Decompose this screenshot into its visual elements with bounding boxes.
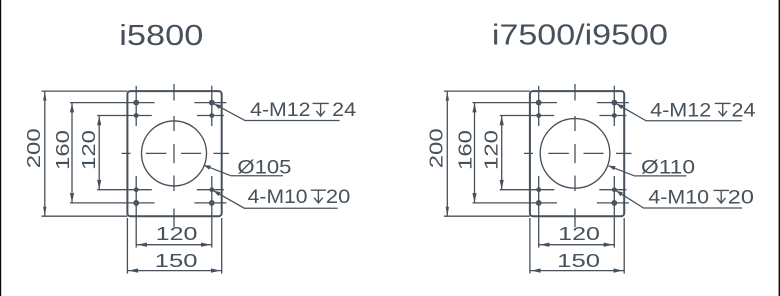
svg-text:i5800: i5800 <box>119 20 203 52</box>
hole M12 top-left (i5800) <box>134 101 138 105</box>
svg-text:20: 20 <box>728 187 754 208</box>
plate outline (i5800) <box>127 91 221 216</box>
dimension 120 bottom (i7500/i9500) <box>539 244 615 246</box>
dimension 200 (i7500/i9500) <box>444 90 530 92</box>
hole M10 bottom-right (i5800) <box>210 188 213 191</box>
svg-text:120: 120 <box>558 224 600 244</box>
svg-text:4-M10: 4-M10 <box>248 187 308 208</box>
label 4-M10 depth 20 (i5800) <box>214 191 338 208</box>
hole M12 bottom-right (i5800) <box>210 201 214 205</box>
hole centermark horizontals (i5800) <box>70 102 155 104</box>
svg-text:160: 160 <box>455 130 475 170</box>
vertical centerline (i5800) <box>173 84 175 101</box>
page right border <box>779 0 780 296</box>
label 4-M10 depth 20 (i7500/i9500) <box>616 191 742 208</box>
label diameter 110 (i7500/i9500) <box>609 166 687 176</box>
hole M10 bottom-left (i5800) <box>135 188 138 191</box>
hole M12 top-right (i7500/i9500) <box>612 101 616 105</box>
hole M12 top-left (i7500/i9500) <box>537 101 541 105</box>
hole centermark horizontals (i7500/i9500) <box>473 102 558 104</box>
central bore circle 110 (i7500/i9500) <box>540 119 610 189</box>
svg-text:120: 120 <box>156 224 198 244</box>
hole M10 top-right (i5800) <box>210 114 213 117</box>
label 4-M12 depth 24 (i7500/i9500) <box>617 104 742 121</box>
label diameter 105 (i5800) <box>204 165 283 176</box>
svg-text:Ø110: Ø110 <box>641 157 695 178</box>
plate outline (i7500/i9500) <box>530 91 624 216</box>
dimension 120 left (i7500/i9500) <box>501 116 503 190</box>
hole centermark verticals (i7500/i9500) <box>538 86 540 126</box>
svg-text:20: 20 <box>326 187 350 208</box>
svg-text:120: 120 <box>79 130 99 170</box>
svg-text:200: 200 <box>24 128 44 168</box>
svg-text:160: 160 <box>53 130 73 170</box>
hole M12 top-right (i5800) <box>210 101 214 105</box>
svg-text:4-M10: 4-M10 <box>648 187 709 208</box>
dimension 200 (i5800) <box>41 90 127 92</box>
page left border <box>0 0 1 296</box>
svg-text:150: 150 <box>155 251 198 271</box>
svg-text:200: 200 <box>426 128 446 168</box>
dimension 120 bottom (i5800) <box>136 244 212 246</box>
svg-text:24: 24 <box>332 100 356 121</box>
svg-text:4-M12: 4-M12 <box>250 100 310 121</box>
svg-text:120: 120 <box>482 130 502 170</box>
svg-text:Ø105: Ø105 <box>237 158 291 179</box>
svg-text:4-M12: 4-M12 <box>650 100 711 121</box>
hole M10 top-left (i7500/i9500) <box>537 114 540 117</box>
hole centermark verticals (i5800) <box>135 86 137 126</box>
hole M10 bottom-left (i7500/i9500) <box>537 188 540 191</box>
central bore circle 105 (i5800) <box>142 121 207 186</box>
dimension 160 (i7500/i9500) <box>474 103 476 203</box>
svg-text:24: 24 <box>732 100 756 121</box>
svg-text:i7500/i9500: i7500/i9500 <box>492 19 668 51</box>
label 4-M12 depth 24 (i5800) <box>214 104 339 121</box>
dimension 160 (i5800) <box>71 103 73 203</box>
horizontal centerline (i5800) <box>122 152 131 154</box>
horizontal centerline (i7500/i9500) <box>524 152 533 154</box>
dimension 150 bottom (i7500/i9500) <box>529 218 531 274</box>
hole M12 bottom-left (i5800) <box>134 201 138 205</box>
svg-text:150: 150 <box>557 251 600 271</box>
dimension 120 left (i5800) <box>98 116 100 190</box>
vertical centerline (i7500/i9500) <box>574 84 576 101</box>
hole M10 top-right (i7500/i9500) <box>613 114 616 117</box>
hole M10 top-left (i5800) <box>135 114 138 117</box>
hole M12 bottom-right (i7500/i9500) <box>612 201 616 205</box>
hole M12 bottom-left (i7500/i9500) <box>537 201 541 205</box>
hole M10 bottom-right (i7500/i9500) <box>613 188 616 191</box>
dimension 150 bottom (i5800) <box>126 218 128 274</box>
